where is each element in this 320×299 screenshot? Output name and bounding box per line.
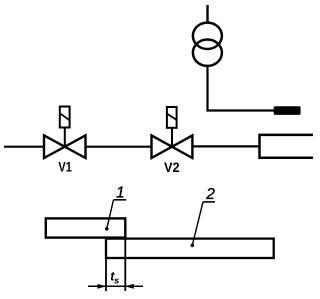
valve V2 body xyxy=(152,135,193,158)
svg-text:V2: V2 xyxy=(164,159,180,175)
wire: transformer lead down and right to electrode xyxy=(208,66,276,111)
leader dot 2 xyxy=(191,244,195,248)
pulse 1 rectangle xyxy=(46,218,126,237)
valve V1 body xyxy=(44,135,86,158)
pulse 2 rectangle xyxy=(106,239,274,258)
wire: ignition transformer top lead xyxy=(206,5,208,23)
leader line for label 1 xyxy=(114,199,127,201)
extension line at overlap start xyxy=(105,257,107,291)
valve V2 actuator box xyxy=(167,107,177,128)
valve V1 stem xyxy=(64,128,66,148)
wire: line between V1 and V2 xyxy=(86,146,152,148)
dimension arrowhead right xyxy=(125,284,134,289)
valve V2 actuator diagonal xyxy=(167,114,177,120)
wire: inlet line xyxy=(4,146,44,148)
valve V1 actuator box xyxy=(60,107,70,128)
svg-text:2: 2 xyxy=(205,186,215,203)
dimension arrowhead left xyxy=(98,284,107,289)
ignition electrode (solid bar) xyxy=(274,106,301,115)
extension line at overlap end xyxy=(124,237,126,291)
valve V2 stem xyxy=(171,128,173,148)
svg-text:s: s xyxy=(114,276,119,287)
ignition transformer (two overlapping circles) xyxy=(193,23,222,49)
wire: line from V2 to nozzle xyxy=(192,145,259,147)
svg-text:1: 1 xyxy=(116,185,125,202)
svg-text:V1: V1 xyxy=(58,159,72,175)
burner nozzle (open box) xyxy=(260,135,314,158)
leader dot 1 xyxy=(105,227,109,231)
valve V1 actuator diagonal xyxy=(60,113,70,120)
leader line for label 2 xyxy=(203,201,215,203)
dimension line ts xyxy=(88,285,143,287)
